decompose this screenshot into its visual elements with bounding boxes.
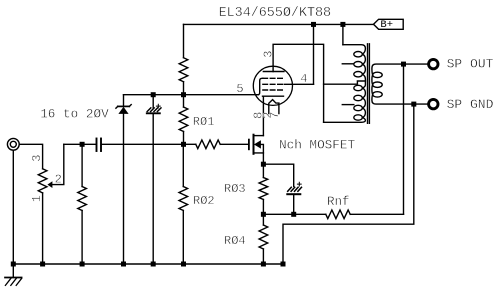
transformer T1 primary plate tap [324, 81, 366, 84]
zener diode 16-20V [116, 95, 131, 264]
wire: coupling cap to R01/R02 node [102, 143, 184, 145]
wire: grid bus y=94.7 [124, 94, 259, 96]
capacitor C-in (coupling) [97, 139, 102, 152]
power flag B+ [374, 19, 404, 29]
input jack J1 [7, 138, 19, 150]
svg-text:1: 1 [30, 195, 44, 202]
svg-text:3: 3 [30, 155, 44, 162]
svg-text:EL34/655Ø/KT88: EL34/655Ø/KT88 [219, 6, 332, 21]
svg-text:B+: B+ [380, 19, 393, 31]
resistor R02 [179, 144, 188, 264]
svg-text:16 to 2ØV: 16 to 2ØV [40, 106, 109, 121]
wire: feedback riser from SP OUT [403, 64, 405, 214]
resistor Rnf [326, 210, 404, 219]
svg-text:SP GND: SP GND [447, 97, 494, 112]
capacitor C-bypass (electrolytic at x=293.7) [263, 164, 301, 214]
vacuum tube U1 envelope [253, 66, 292, 105]
svg-text:RØ2: RØ2 [193, 194, 215, 208]
svg-text:RØ4: RØ4 [224, 234, 246, 248]
wire: jack to pot top [19, 144, 42, 169]
transistor Q1 Nch MOSFET [249, 135, 264, 165]
svg-text:RØ3: RØ3 [224, 182, 246, 196]
tube grid g-row2 (g2 to pin 4) [263, 83, 314, 85]
resistor R-top (B+ feed) [179, 24, 188, 94]
wire: signal bus to coupling cap [64, 143, 96, 145]
terminal SP OUT [429, 59, 438, 68]
resistor R04 [259, 214, 268, 264]
tube grid g-row1 + g1 bracket [258, 78, 282, 94]
wire: SP GND return riser [283, 104, 414, 264]
transformer T1 core [368, 44, 370, 124]
wire: pot wiper riser [52, 144, 63, 184]
svg-text:5: 5 [236, 82, 243, 96]
transformer T1 secondary winding [372, 64, 427, 104]
wire: B+ top rail [184, 23, 374, 25]
tube cathode [263, 96, 284, 135]
resistor R03 [259, 164, 268, 214]
ground symbol [5, 264, 22, 285]
wire: pin4 riser to B+ rail [313, 24, 315, 84]
terminal SP GND [429, 99, 438, 108]
tube plate [263, 71, 284, 73]
svg-text:4: 4 [300, 72, 307, 86]
resistor R01 [179, 95, 188, 145]
svg-text:Rnf: Rnf [327, 195, 350, 209]
svg-text:Nch MOSFET: Nch MOSFET [279, 137, 356, 152]
tube heater [269, 100, 279, 114]
transformer T1 primary UL tap lower [342, 104, 354, 106]
wire: B+ rail to OPT primary top [342, 24, 344, 44]
transformer T1 primary winding [324, 45, 366, 123]
wire: jack ground lead [12, 150, 14, 264]
resistor R-stopper (gate) [184, 140, 249, 149]
transformer T1 primary UL tap upper [342, 63, 354, 65]
svg-text:7: 7 [268, 112, 282, 119]
wire: ground rail [13, 263, 283, 265]
wire: plate to OPT primary bottom [273, 44, 324, 122]
wire: cathode node bus [263, 213, 325, 215]
svg-text:SP OUT: SP OUT [447, 57, 494, 72]
tube grid g-row3 [263, 89, 282, 91]
potentiometer VR1 [38, 169, 52, 264]
capacitor C-filter (electrolytic at x=153) [147, 95, 161, 264]
svg-text:RØ1: RØ1 [193, 115, 215, 129]
resistor R-gridleak (x=82) [78, 144, 87, 264]
